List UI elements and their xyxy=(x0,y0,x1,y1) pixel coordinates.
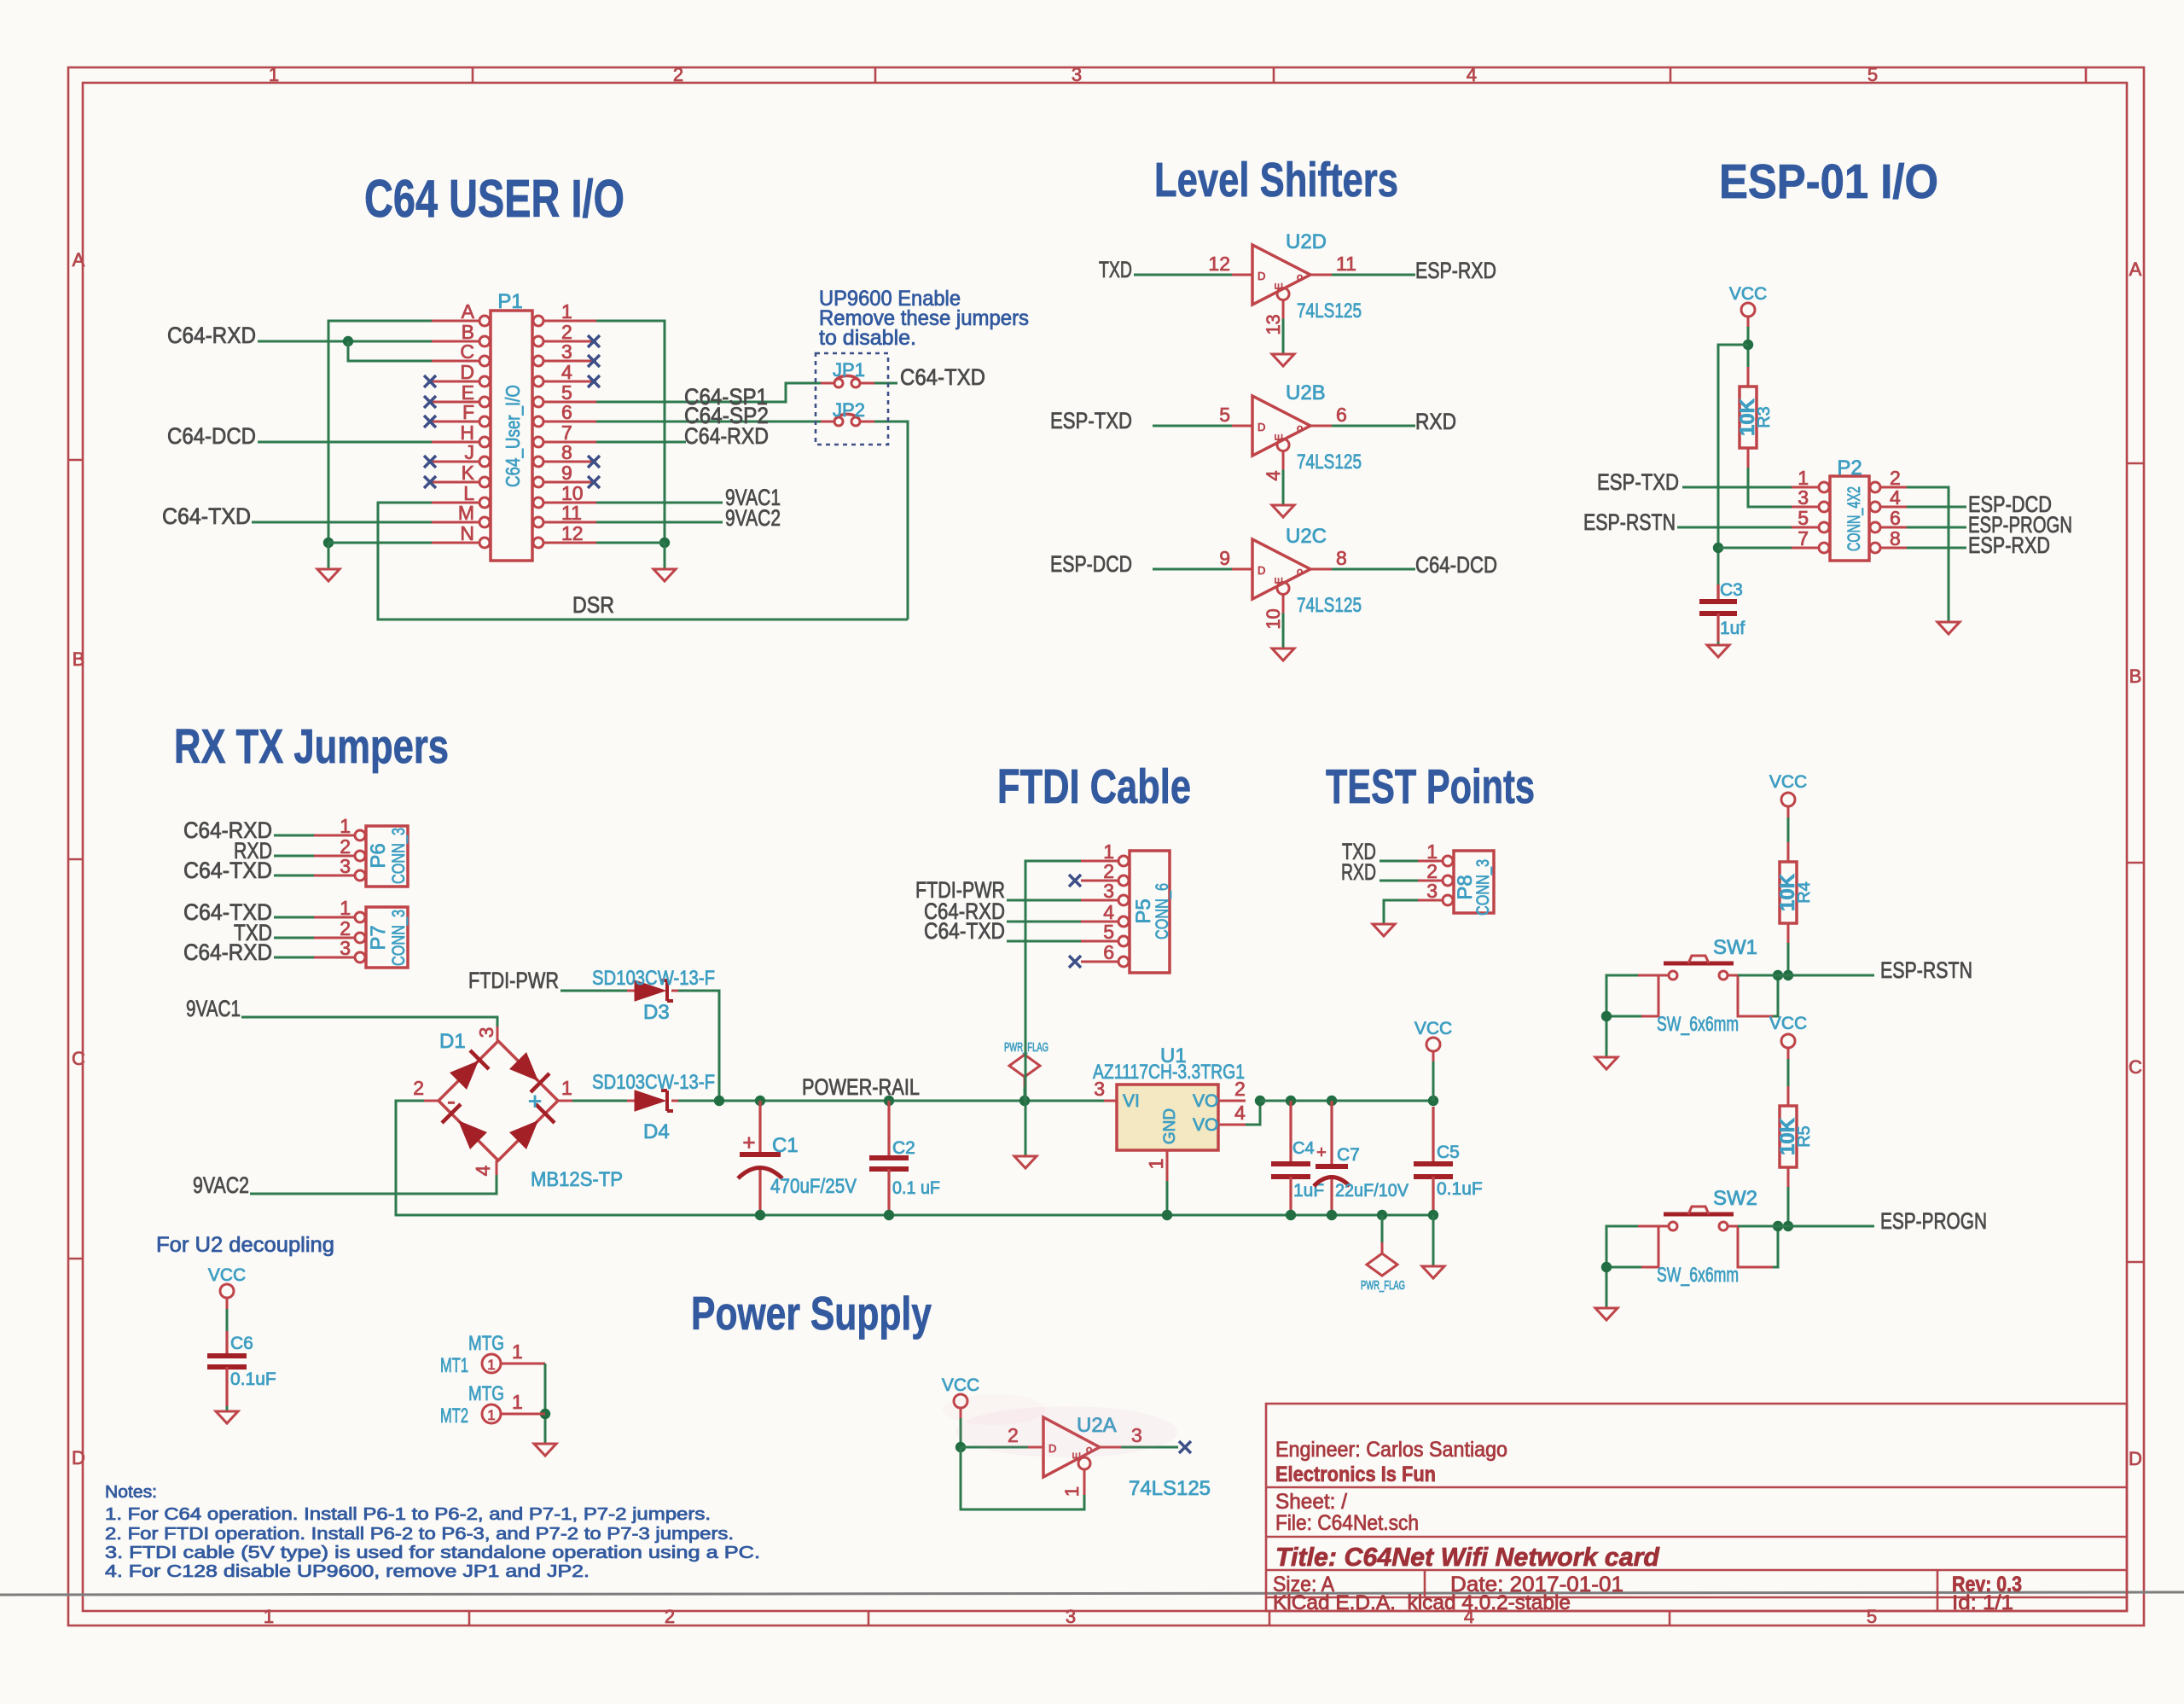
svg-text:8: 8 xyxy=(1890,527,1901,550)
svg-text:VCC: VCC xyxy=(1769,772,1807,792)
svg-text:ESP-TXD: ESP-TXD xyxy=(1597,469,1679,495)
svg-text:10: 10 xyxy=(1263,608,1284,629)
svg-text:7: 7 xyxy=(1798,527,1809,550)
svg-text:3: 3 xyxy=(1103,880,1114,902)
svg-text:1: 1 xyxy=(340,815,351,837)
svg-text:E: E xyxy=(1273,282,1285,289)
svg-text:CONN_4X2: CONN_4X2 xyxy=(1844,486,1864,551)
svg-text:Power Supply: Power Supply xyxy=(691,1287,932,1340)
svg-text:JP1: JP1 xyxy=(833,359,865,381)
svg-text:P7: P7 xyxy=(367,925,390,950)
svg-text:KiCad E.D.A. kicad 4.0.2-stab: KiCad E.D.A. kicad 4.0.2-stable xyxy=(1273,1591,1571,1614)
svg-text:C64-RXD: C64-RXD xyxy=(684,423,769,449)
svg-text:3: 3 xyxy=(1066,1606,1076,1627)
svg-text:4: 4 xyxy=(561,361,572,383)
svg-text:R3: R3 xyxy=(1755,406,1774,428)
svg-text:2: 2 xyxy=(413,1077,424,1099)
svg-text:1: 1 xyxy=(487,1407,495,1423)
svg-text:0.1uF: 0.1uF xyxy=(1437,1179,1483,1199)
svg-text:ESP-DCD: ESP-DCD xyxy=(1050,551,1132,577)
svg-text:3: 3 xyxy=(475,1027,497,1038)
svg-text:CONN_3: CONN_3 xyxy=(389,910,409,966)
svg-text:1: 1 xyxy=(340,897,351,919)
svg-text:+: + xyxy=(528,1088,542,1114)
svg-text:D4: D4 xyxy=(643,1120,670,1143)
svg-text:D: D xyxy=(1258,270,1265,282)
svg-text:4: 4 xyxy=(1890,486,1901,509)
svg-text:D1: D1 xyxy=(439,1030,466,1053)
svg-text:C: C xyxy=(460,340,474,363)
svg-text:C64-DCD: C64-DCD xyxy=(167,423,256,449)
svg-text:C5: C5 xyxy=(1437,1143,1460,1162)
svg-text:11: 11 xyxy=(561,502,582,524)
svg-text:P6: P6 xyxy=(367,843,390,868)
svg-text:C64_User_I/O: C64_User_I/O xyxy=(502,385,524,487)
svg-text:J: J xyxy=(465,441,475,463)
svg-text:+: + xyxy=(1316,1143,1327,1162)
svg-text:SW1: SW1 xyxy=(1713,936,1757,959)
svg-text:5: 5 xyxy=(1867,64,1878,85)
svg-text:+: + xyxy=(742,1130,755,1155)
svg-text:2: 2 xyxy=(673,64,683,85)
svg-text:Title: C64Net Wifi Network car: Title: C64Net Wifi Network card xyxy=(1275,1542,1660,1572)
svg-text:1: 1 xyxy=(512,1341,523,1363)
svg-text:SD103CW-13-F: SD103CW-13-F xyxy=(592,1071,715,1094)
svg-text:9VAC1: 9VAC1 xyxy=(186,996,241,1021)
svg-text:RXD: RXD xyxy=(1341,859,1376,885)
svg-text:POWER-RAIL: POWER-RAIL xyxy=(802,1074,920,1100)
svg-text:VCC: VCC xyxy=(942,1375,979,1395)
svg-text:FTDI Cable: FTDI Cable xyxy=(997,759,1191,814)
svg-text:1: 1 xyxy=(264,1606,274,1627)
svg-text:VO: VO xyxy=(1193,1091,1218,1111)
svg-text:470uF/25V: 470uF/25V xyxy=(770,1175,857,1198)
svg-text:E: E xyxy=(1273,433,1285,440)
svg-text:ESP-PROGN: ESP-PROGN xyxy=(1880,1208,1987,1234)
svg-text:ESP-RXD: ESP-RXD xyxy=(1415,258,1496,283)
svg-text:RX TX Jumpers: RX TX Jumpers xyxy=(174,719,449,774)
svg-text:5: 5 xyxy=(1103,921,1114,943)
svg-text:SW_6x6mm: SW_6x6mm xyxy=(1657,1013,1739,1036)
svg-text:CONN_6: CONN_6 xyxy=(1153,883,1172,939)
svg-text:3: 3 xyxy=(561,340,572,363)
svg-text:U2B: U2B xyxy=(1286,381,1326,404)
svg-text:4: 4 xyxy=(472,1165,494,1176)
svg-text:R4: R4 xyxy=(1795,881,1814,904)
svg-text:8: 8 xyxy=(1336,547,1347,569)
svg-text:M: M xyxy=(458,502,474,524)
svg-text:1uf: 1uf xyxy=(1720,619,1745,638)
svg-text:ESP-RXD: ESP-RXD xyxy=(1968,532,2050,558)
svg-text:12: 12 xyxy=(1208,253,1230,275)
svg-text:6: 6 xyxy=(1336,404,1347,426)
svg-text:VCC: VCC xyxy=(1729,284,1767,304)
svg-text:9VAC2: 9VAC2 xyxy=(725,505,781,531)
svg-text:D3: D3 xyxy=(643,1001,670,1024)
svg-text:Electronics Is Fun: Electronics Is Fun xyxy=(1275,1463,1436,1486)
svg-text:A: A xyxy=(2129,259,2142,280)
svg-text:CONN_3: CONN_3 xyxy=(389,828,409,884)
svg-text:12: 12 xyxy=(561,522,584,544)
svg-text:N: N xyxy=(460,522,474,544)
svg-text:TEST Points: TEST Points xyxy=(1326,759,1535,814)
svg-text:-: - xyxy=(447,1087,456,1115)
svg-text:4: 4 xyxy=(1467,64,1477,85)
svg-text:VO: VO xyxy=(1193,1115,1218,1135)
svg-text:Id: 1/1: Id: 1/1 xyxy=(1952,1591,2013,1614)
svg-text:FTDI-PWR: FTDI-PWR xyxy=(468,968,559,993)
svg-text:74LS125: 74LS125 xyxy=(1297,300,1362,323)
svg-text:9: 9 xyxy=(1219,547,1230,569)
svg-text:C64-RXD: C64-RXD xyxy=(183,939,272,965)
svg-text:3. FTDI cable (5V type) is use: 3. FTDI cable (5V type) is used for stan… xyxy=(105,1544,760,1562)
svg-text:A: A xyxy=(462,300,475,323)
svg-text:ESP-RSTN: ESP-RSTN xyxy=(1880,957,1972,983)
svg-text:C7: C7 xyxy=(1337,1145,1360,1165)
svg-text:3: 3 xyxy=(340,855,351,877)
svg-text:6: 6 xyxy=(1103,941,1114,963)
svg-text:B: B xyxy=(2129,666,2142,687)
svg-text:C64-TXD: C64-TXD xyxy=(900,364,985,390)
svg-text:F: F xyxy=(462,401,474,423)
svg-text:C64-TXD: C64-TXD xyxy=(162,503,251,529)
svg-text:JP2: JP2 xyxy=(833,399,865,421)
svg-text:9: 9 xyxy=(561,462,572,484)
svg-text:2: 2 xyxy=(665,1606,675,1627)
svg-text:74LS125: 74LS125 xyxy=(1129,1477,1211,1500)
svg-text:o: o xyxy=(1297,565,1303,578)
svg-text:0.1uF: 0.1uF xyxy=(230,1370,276,1389)
svg-text:Notes:: Notes: xyxy=(105,1483,157,1502)
svg-text:5: 5 xyxy=(1219,404,1230,426)
svg-text:U2C: U2C xyxy=(1286,525,1327,548)
svg-text:MTG: MTG xyxy=(468,1382,504,1405)
svg-text:ESP-RSTN: ESP-RSTN xyxy=(1583,509,1676,535)
svg-text:VCC: VCC xyxy=(1414,1019,1452,1038)
svg-text:C64-DCD: C64-DCD xyxy=(1415,552,1497,578)
svg-text:1: 1 xyxy=(487,1357,495,1373)
svg-text:0.1 uF: 0.1 uF xyxy=(892,1178,940,1198)
svg-text:C64-RXD: C64-RXD xyxy=(167,323,256,348)
svg-text:VCC: VCC xyxy=(208,1265,246,1285)
svg-text:5: 5 xyxy=(1798,507,1809,529)
svg-text:File: C64Net.sch: File: C64Net.sch xyxy=(1275,1511,1419,1535)
svg-text:SW2: SW2 xyxy=(1713,1187,1757,1210)
svg-text:1: 1 xyxy=(512,1391,523,1413)
svg-text:4: 4 xyxy=(1263,470,1284,480)
svg-text:R5: R5 xyxy=(1795,1125,1814,1148)
svg-text:C4: C4 xyxy=(1292,1139,1315,1158)
svg-text:3: 3 xyxy=(1426,880,1438,902)
svg-text:1: 1 xyxy=(269,64,279,85)
svg-text:C3: C3 xyxy=(1720,580,1743,600)
svg-text:4. For C128 disable UP9600, re: 4. For C128 disable UP9600, remove JP1 a… xyxy=(105,1562,590,1581)
svg-text:SD103CW-13-F: SD103CW-13-F xyxy=(592,967,715,990)
svg-text:D: D xyxy=(1258,421,1265,433)
svg-text:C: C xyxy=(2129,1056,2142,1078)
svg-text:11: 11 xyxy=(1336,253,1356,275)
svg-text:P2: P2 xyxy=(1837,457,1862,480)
svg-text:C64-TXD: C64-TXD xyxy=(183,858,272,883)
svg-text:For U2 decoupling: For U2 decoupling xyxy=(156,1233,334,1257)
svg-text:B: B xyxy=(73,648,85,670)
svg-text:D: D xyxy=(72,1447,85,1468)
svg-text:1uF: 1uF xyxy=(1293,1181,1324,1201)
svg-text:P5: P5 xyxy=(1132,899,1155,923)
svg-text:5: 5 xyxy=(1867,1606,1877,1627)
svg-text:9VAC2: 9VAC2 xyxy=(193,1172,249,1198)
svg-text:CONN_3: CONN_3 xyxy=(1473,859,1493,916)
svg-text:D: D xyxy=(460,361,474,383)
svg-text:C64 USER I/O: C64 USER I/O xyxy=(364,170,624,229)
svg-text:74LS125: 74LS125 xyxy=(1297,594,1362,617)
svg-text:PWR_FLAG: PWR_FLAG xyxy=(1361,1278,1405,1293)
svg-text:VI: VI xyxy=(1123,1091,1140,1111)
svg-text:1: 1 xyxy=(1061,1486,1083,1497)
svg-text:MB12S-TP: MB12S-TP xyxy=(531,1168,623,1191)
svg-text:to disable.: to disable. xyxy=(819,326,916,350)
svg-text:DSR: DSR xyxy=(572,592,614,618)
svg-text:GND: GND xyxy=(1161,1108,1179,1144)
svg-text:1. For C64 operation. Install: 1. For C64 operation. Install P6-1 to P6… xyxy=(105,1505,711,1524)
svg-text:13: 13 xyxy=(1263,314,1284,334)
svg-text:SW_6x6mm: SW_6x6mm xyxy=(1657,1264,1739,1287)
svg-text:D: D xyxy=(2129,1448,2142,1469)
svg-text:C64-TXD: C64-TXD xyxy=(924,918,1005,944)
svg-text:6: 6 xyxy=(561,401,572,423)
svg-text:3: 3 xyxy=(1798,486,1809,509)
svg-text:RXD: RXD xyxy=(1415,409,1456,434)
svg-text:4: 4 xyxy=(1234,1102,1246,1124)
svg-text:MTG: MTG xyxy=(468,1332,504,1355)
svg-text:ESP-TXD: ESP-TXD xyxy=(1050,408,1132,433)
svg-text:K: K xyxy=(462,462,475,484)
svg-text:C: C xyxy=(72,1048,85,1069)
svg-text:1: 1 xyxy=(1145,1159,1167,1170)
svg-text:VCC: VCC xyxy=(1769,1014,1807,1033)
svg-text:MT1: MT1 xyxy=(440,1354,468,1377)
svg-text:ESP-01 I/O: ESP-01 I/O xyxy=(1719,154,1938,209)
svg-text:o: o xyxy=(1297,270,1303,283)
svg-text:Engineer: Carlos Santiago: Engineer: Carlos Santiago xyxy=(1275,1438,1507,1462)
svg-text:3: 3 xyxy=(1072,64,1082,85)
svg-text:3: 3 xyxy=(340,937,351,959)
svg-text:C6: C6 xyxy=(230,1334,253,1353)
svg-text:U2D: U2D xyxy=(1286,230,1327,253)
svg-text:C2: C2 xyxy=(892,1138,915,1158)
svg-text:1: 1 xyxy=(561,1077,572,1099)
svg-text:o: o xyxy=(1297,422,1303,434)
svg-text:P1: P1 xyxy=(497,290,522,313)
svg-text:6: 6 xyxy=(1890,507,1901,529)
svg-text:MT2: MT2 xyxy=(440,1404,468,1428)
svg-text:E: E xyxy=(1273,577,1285,584)
svg-text:Level Shifters: Level Shifters xyxy=(1154,153,1398,207)
svg-text:D: D xyxy=(1258,564,1265,577)
svg-text:Sheet: /: Sheet: / xyxy=(1275,1490,1347,1514)
svg-text:22uF/10V: 22uF/10V xyxy=(1335,1181,1409,1201)
svg-text:1: 1 xyxy=(561,300,572,323)
svg-text:AZ1117CH-3.3TRG1: AZ1117CH-3.3TRG1 xyxy=(1093,1061,1245,1084)
svg-text:C1: C1 xyxy=(772,1134,799,1157)
svg-text:TXD: TXD xyxy=(1099,257,1132,282)
svg-text:2. For FTDI operation. Install: 2. For FTDI operation. Install P6-2 to P… xyxy=(105,1525,734,1544)
svg-text:74LS125: 74LS125 xyxy=(1297,451,1362,474)
svg-text:A: A xyxy=(73,249,85,270)
svg-text:8: 8 xyxy=(561,441,572,463)
